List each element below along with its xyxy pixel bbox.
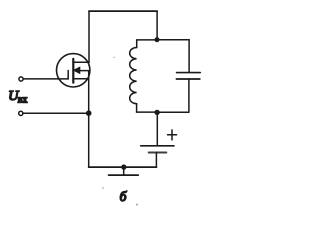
source tap — [73, 78, 88, 80]
node tank top junction dot — [155, 37, 160, 42]
ground — [109, 164, 139, 175]
wire tank top to inductor — [137, 39, 157, 41]
scan speck — [136, 204, 138, 206]
transistor VT1 — [56, 54, 89, 87]
capacitor C1 — [176, 73, 200, 79]
channel — [72, 59, 74, 83]
terminal input bottom — [19, 111, 23, 115]
inductor L1 — [130, 40, 137, 112]
wire gate lead — [24, 78, 69, 80]
wire input bottom — [23, 112, 88, 114]
wire inductor bottom to tank node — [137, 111, 157, 113]
gate electrode — [67, 71, 69, 79]
wire top rail — [89, 10, 157, 12]
wire top right branch down to tank node — [156, 11, 158, 40]
label battery plus — [168, 130, 177, 140]
terminal input top — [19, 77, 23, 81]
wire tank top to capacitor — [157, 40, 189, 72]
svg-text:вх: вх — [18, 95, 28, 106]
scan speck — [102, 187, 104, 189]
wire capacitor bottom to tank node — [157, 80, 189, 113]
wire bottom rail — [89, 166, 157, 168]
scan speck — [113, 57, 114, 58]
wire battery bottom to rail — [155, 153, 157, 167]
substrate lead with arrow — [80, 70, 89, 72]
wire drain vertical — [88, 11, 90, 62]
svg-text:б: б — [120, 189, 128, 204]
drain tap — [73, 61, 89, 63]
wire source vertical — [88, 71, 90, 168]
battery GB1 — [141, 112, 174, 152]
node tank bottom junction dot — [154, 110, 159, 115]
node source junction dot — [86, 110, 92, 116]
